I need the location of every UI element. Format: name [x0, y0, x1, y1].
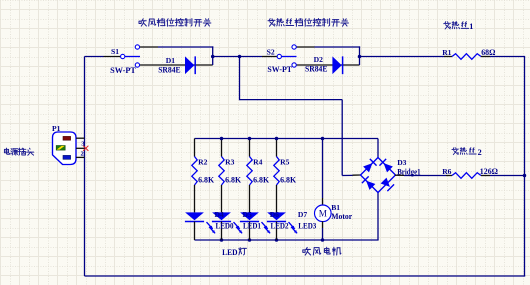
LED D5 symbol [212, 212, 231, 220]
resistor R3 6.8K [221, 139, 223, 157]
svg-text:LED2: LED2 [271, 221, 289, 230]
svg-text:LED3: LED3 [298, 221, 316, 230]
svg-text:R3: R3 [225, 157, 234, 166]
svg-text:SR84E: SR84E [158, 66, 180, 75]
wire: LED bank bottom rail [195, 239, 379, 241]
svg-text:S1: S1 [111, 47, 119, 56]
wire: bridge AC2 to R6 [395, 174, 404, 176]
plug pin 3 [76, 137, 85, 139]
svg-text:LED: LED [222, 248, 238, 257]
svg-text:6.8K: 6.8K [225, 176, 242, 185]
svg-text:S2: S2 [267, 48, 275, 57]
svg-text:2: 2 [478, 148, 482, 157]
svg-text:6.8K: 6.8K [198, 176, 215, 185]
svg-text:R5: R5 [280, 157, 289, 166]
svg-text:6.8K: 6.8K [253, 176, 270, 185]
bridge rectifier D3 Bridge1 [361, 158, 396, 193]
plug pin 2 [76, 156, 85, 158]
svg-text:D4: D4 [215, 210, 224, 219]
svg-text:D5: D5 [243, 210, 252, 219]
svg-text:R2: R2 [198, 157, 207, 166]
svg-text:D7: D7 [298, 210, 307, 219]
wire: R1 to right vertical [490, 56, 525, 58]
svg-text:SW-PT: SW-PT [267, 65, 292, 74]
svg-text:M: M [319, 209, 327, 219]
plug live bar [63, 136, 71, 140]
svg-text:SW-PT: SW-PT [110, 66, 136, 75]
junction: motor branch on top rail [321, 137, 325, 141]
junction: top rail col 2 [220, 137, 224, 141]
plug pin (middle, no ERC) [76, 147, 84, 149]
wire: branch from switches node down and over to bridge AC1 [239, 57, 241, 101]
svg-text:Motor: Motor [331, 212, 352, 221]
svg-text:126Ω: 126Ω [480, 167, 498, 176]
svg-text:LED0: LED0 [216, 221, 234, 230]
svg-text:6.8K: 6.8K [280, 176, 297, 185]
plug neutral bar [63, 155, 71, 159]
svg-text:68Ω: 68Ω [481, 48, 495, 57]
wire: bridge DC- down to bottom rail [377, 193, 379, 241]
svg-text:D6: D6 [270, 210, 279, 219]
junction: S1 output node [211, 55, 215, 59]
title: heater wire gear control switch [268, 19, 275, 27]
svg-text:R6: R6 [442, 167, 451, 176]
junction: motor bottom on rail [321, 238, 325, 242]
wire: bottom rail [85, 275, 526, 277]
junction: S2 output node [358, 55, 362, 59]
LED D4 symbol [185, 212, 204, 220]
wire: top rail corner down to bridge DC+ [377, 139, 379, 158]
svg-text:1: 1 [469, 22, 473, 31]
svg-text:D3: D3 [397, 158, 406, 167]
wire: S1 output to S2 [213, 56, 262, 58]
wire: left trunk vertical from top rail to bottom rail [84, 57, 86, 277]
junction: bottom rail col 2 [220, 238, 224, 242]
svg-text:D1: D1 [166, 56, 175, 65]
label: power plug (chinese) [4, 148, 9, 154]
junction: branch to bridge [238, 55, 242, 59]
resistor R4 6.8K [249, 139, 251, 157]
wire: R6 to right vertical [490, 175, 525, 177]
svg-text:LED1: LED1 [243, 221, 261, 230]
junction: R6 on right vertical [523, 174, 527, 178]
wire: S2 top throw to output corner [315, 46, 361, 48]
junction: top rail col 4 [275, 137, 279, 141]
svg-text:SR84E: SR84E [305, 65, 327, 74]
LED D7 symbol [267, 212, 286, 220]
resistor R2 6.8K [194, 139, 196, 157]
wire: LED bank top rail [195, 138, 379, 140]
no-ERC red cross [83, 146, 88, 151]
wire: S1 top throw to output corner [158, 46, 213, 48]
wire: top rail from trunk to S1 [85, 56, 104, 58]
wire: S2 output to R1 [360, 56, 445, 58]
wire: right vertical (R1 output down to bottom rail) [524, 57, 526, 277]
svg-text:B1: B1 [331, 203, 340, 212]
LED D6 symbol [240, 212, 259, 220]
label: blower motor (chinese) [303, 247, 311, 255]
title: blower gear control switch [139, 19, 146, 26]
svg-text:R1: R1 [442, 48, 451, 57]
title: heater wire 2 [452, 148, 459, 155]
junction: top rail col 3 [248, 137, 252, 141]
junction: bottom rail col 4 [275, 238, 279, 242]
wire: motor branch down [322, 139, 324, 199]
motor B1 [315, 205, 332, 222]
resistor R5 6.8K [276, 139, 278, 157]
title: heater wire 1 [444, 22, 451, 29]
svg-text:D2: D2 [314, 55, 323, 64]
plug earth bar (green/yellow) [56, 146, 65, 151]
junction: bottom rail col 3 [248, 238, 252, 242]
svg-text:R4: R4 [253, 157, 262, 166]
